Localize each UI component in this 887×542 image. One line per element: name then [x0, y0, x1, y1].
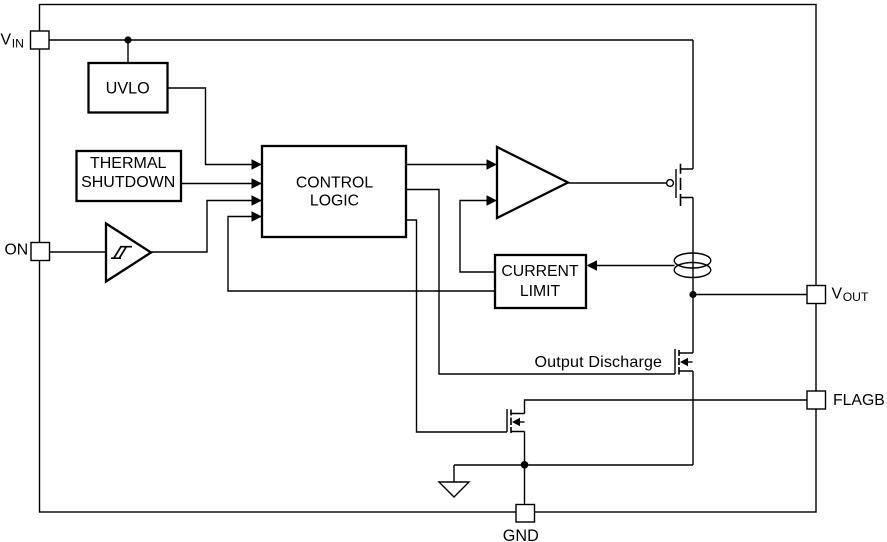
arrowheads into control logic	[252, 159, 263, 221]
svg-text:CURRENT: CURRENT	[501, 263, 579, 280]
wire thermal shutdown output	[181, 183, 252, 185]
wire output node to VOUT pin	[693, 294, 807, 296]
wire Q3 drain to FLAGB pin	[525, 400, 808, 414]
wire control logic to flag transistor gate	[406, 220, 507, 432]
wire driver amp output to pass gate	[568, 182, 667, 184]
wire schmitt output to control logic	[151, 201, 252, 253]
svg-text:CONTROL: CONTROL	[296, 174, 373, 191]
wire UVLO output to control logic	[168, 88, 252, 165]
transistor Q1 pass PMOS	[667, 164, 693, 206]
wire VIN to UVLO	[127, 40, 129, 63]
svg-text:FLAGB: FLAGB	[833, 392, 885, 409]
svg-text:GND: GND	[503, 527, 539, 542]
wire ON to schmitt	[50, 251, 107, 253]
arrowheads into driver amp	[487, 159, 498, 205]
wire Q1 source down to sense	[692, 198, 694, 354]
svg-text:UVLO: UVLO	[106, 79, 150, 97]
svg-text:V: V	[832, 285, 843, 302]
wire current limit feedback to control logic	[228, 217, 495, 292]
block THERMAL SHUTDOWN	[77, 151, 182, 201]
wire VIN rail	[49, 40, 693, 169]
pin VIN	[1, 31, 50, 51]
node ground junction	[521, 461, 529, 469]
transistor Q2 output discharge NMOS	[675, 349, 693, 375]
svg-text:Output Discharge: Output Discharge	[535, 353, 663, 371]
svg-text:ON: ON	[5, 241, 29, 258]
wire control logic to driver amp	[406, 164, 487, 166]
arrowhead into current limit	[587, 260, 598, 270]
wire current limit to driver amp	[460, 201, 495, 273]
svg-text:V: V	[1, 31, 12, 48]
svg-text:LIMIT: LIMIT	[520, 283, 561, 300]
svg-text:SHUTDOWN: SHUTDOWN	[81, 174, 175, 191]
transistor Q3 flag NMOS	[507, 409, 525, 433]
wire Q2 source to ground bus	[692, 371, 694, 465]
pin FLAGB	[807, 391, 885, 409]
current sense coil	[674, 253, 711, 278]
block CURRENT LIMIT	[495, 255, 586, 308]
svg-text:OUT: OUT	[843, 290, 869, 304]
wire control logic to output discharge gate	[406, 190, 675, 375]
driver amp U3	[497, 147, 568, 218]
pin VOUT	[807, 285, 869, 304]
svg-text:IN: IN	[12, 37, 24, 51]
schmitt trigger U2	[106, 224, 151, 282]
wire ground bus	[454, 464, 693, 466]
block UVLO	[89, 63, 168, 113]
pin ON	[5, 241, 50, 260]
wire current sense to current limit	[597, 265, 675, 267]
ground symbol	[439, 465, 469, 497]
svg-text:LOGIC: LOGIC	[310, 193, 359, 210]
node output junction	[689, 291, 696, 298]
svg-text:THERMAL: THERMAL	[90, 155, 167, 172]
wire Q3 source to ground and GND pin	[524, 432, 526, 506]
pin GND	[503, 505, 539, 542]
block CONTROL LOGIC	[262, 146, 406, 237]
node VIN junction	[124, 36, 131, 43]
